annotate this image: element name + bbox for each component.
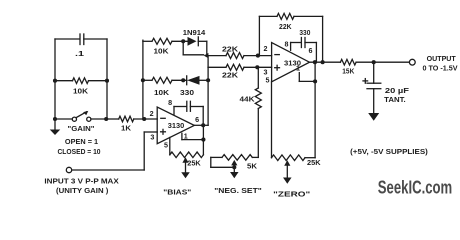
resistor R9 44K (255, 88, 261, 109)
node junction pin1-output (313, 79, 317, 83)
wire loop top segment right (84, 38, 107, 40)
svg-text:22K: 22K (279, 24, 292, 31)
node junction pin2-feedback (256, 54, 260, 58)
wire to 1K (107, 118, 119, 120)
svg-text:TANT.: TANT. (384, 95, 406, 104)
label NEG. SET (214, 188, 262, 195)
label UNITY GAIN (56, 186, 109, 195)
svg-text:8: 8 (168, 100, 172, 107)
node junction output-feedback (321, 60, 325, 64)
op-amp U1 3130 (157, 107, 194, 144)
wire top branch left (143, 40, 152, 42)
svg-text:10K: 10K (154, 49, 169, 56)
wire feedback top right (294, 16, 323, 62)
U1 pin 1 stub (182, 133, 188, 140)
diode D2 (187, 76, 208, 85)
svg-text:22K: 22K (222, 47, 238, 54)
svg-text:3: 3 (150, 135, 154, 142)
wire feedback rail (142, 40, 144, 119)
wire 44K down (252, 109, 258, 158)
svg-text:1N914: 1N914 (183, 30, 206, 37)
svg-text:0 TO -1.5V: 0 TO -1.5V (423, 64, 458, 73)
wire D1 node drop (183, 41, 203, 55)
value label TANT (384, 95, 406, 104)
wire 15K to terminal (356, 61, 409, 63)
node A diode anode (181, 39, 185, 43)
op-amp U2 3130 (272, 43, 310, 82)
svg-text:"BIAS": "BIAS" (163, 190, 191, 197)
U2 pin 1 stub (296, 66, 300, 82)
svg-text:5: 5 (266, 78, 270, 85)
U2 pin 2 label (264, 46, 268, 53)
node junction right-mid (105, 79, 109, 83)
U1 pin 2 label (150, 111, 154, 118)
value label 1K (121, 126, 131, 133)
node junction output-apex (313, 60, 317, 64)
wire to 22K upper (207, 55, 226, 57)
ground below C4 (368, 113, 379, 121)
value label 22K feedback (279, 24, 292, 31)
label BIAS (163, 190, 191, 197)
input terminal (66, 167, 71, 172)
wire U2 pin1 bracket (299, 80, 315, 82)
svg-text:5: 5 (164, 143, 168, 150)
wire loop left rail (54, 39, 56, 119)
wire 22K upper to pin2 (244, 55, 272, 57)
wire pin1 bracket (182, 125, 204, 155)
U2 pin 3 label (264, 70, 268, 77)
wire feedback top left (259, 15, 277, 17)
node junction 1K-feedback (142, 117, 146, 121)
U2 plus sign (275, 65, 280, 70)
value label 330 U2 (299, 30, 310, 37)
node junction pin3-44K (255, 65, 259, 69)
value label 25K ZERO (307, 160, 321, 167)
node B diode cathode (181, 78, 185, 82)
label ZERO (273, 191, 310, 198)
svg-text:"GAIN": "GAIN" (68, 126, 95, 133)
resistor R3 10K (152, 38, 172, 44)
label GAIN (68, 126, 95, 133)
U2 minus sign (275, 54, 279, 56)
U1 plus sign (161, 129, 166, 134)
wire U2 output vertical (314, 62, 316, 158)
U1 pin 8 stub (168, 100, 174, 114)
value label 10K top (154, 49, 169, 56)
svg-text:SeekIC.com: SeekIC.com (378, 176, 452, 197)
label OUTPUT (427, 54, 457, 63)
svg-text:(UNITY GAIN ): (UNITY GAIN ) (56, 186, 109, 195)
value label 330 (180, 90, 194, 97)
svg-text:6: 6 (309, 48, 313, 55)
node junction NEGSET wiper (232, 165, 236, 169)
svg-text:CLOSED = 10: CLOSED = 10 (57, 149, 100, 156)
wire loop top segment left (55, 38, 79, 40)
label OPEN = 1 (65, 139, 98, 146)
SeekIC.com logo (378, 176, 452, 197)
wire bottom branch left (143, 79, 152, 81)
value label 22K lower (222, 73, 238, 80)
wire bottom branch mid (172, 79, 187, 81)
potentiometer R5 25K BIAS (170, 152, 204, 172)
svg-text:15K: 15K (342, 68, 354, 75)
svg-text:10K: 10K (154, 90, 169, 97)
wire mid (55, 80, 107, 82)
value label 25K (187, 160, 201, 167)
svg-text:25K: 25K (187, 160, 201, 167)
svg-text:OPEN = 1: OPEN = 1 (65, 139, 98, 146)
svg-text:"NEG. SET": "NEG. SET" (214, 188, 262, 195)
wire to 22K lower (208, 66, 226, 68)
wire bus vertical lower (207, 56, 209, 126)
node junction bus-bottom (206, 78, 210, 82)
svg-text:44K: 44K (240, 97, 255, 104)
node junction left-mid (53, 79, 57, 83)
capacitor C2 330 (174, 101, 203, 125)
wire input riser (144, 132, 157, 170)
svg-text:6: 6 (195, 117, 199, 124)
svg-text:2: 2 (264, 46, 268, 53)
wire top branch mid (172, 40, 187, 42)
node junction switch-left (53, 117, 57, 121)
ground below switch (50, 119, 61, 135)
U2 pin 5 stub (266, 78, 272, 158)
U1 pin 3 label (150, 135, 154, 142)
potentiometer R11 25K ZERO (272, 155, 316, 178)
value label 5K (247, 164, 257, 171)
wire feedback up (258, 16, 260, 55)
node junction rail-bottom-branch (141, 78, 145, 82)
svg-text:2: 2 (150, 111, 154, 118)
output terminal (409, 59, 415, 65)
svg-text:330: 330 (180, 90, 194, 97)
svg-text:3130: 3130 (168, 121, 185, 130)
svg-text:25K: 25K (307, 160, 321, 167)
U1 pin 6 label (195, 117, 199, 124)
value label 15K (342, 68, 354, 75)
svg-text:1K: 1K (121, 126, 131, 133)
value label 20 uF (385, 86, 410, 95)
potentiometer R10 5K NEG SET (211, 155, 253, 172)
switch S1 GAIN (72, 111, 91, 121)
value label 44K (240, 97, 255, 104)
svg-text:22K: 22K (222, 73, 238, 80)
wire 1K to pin2 (134, 118, 157, 120)
ground below ZERO (283, 178, 292, 184)
resistor R8 22K feedback (277, 13, 294, 19)
resistor R1 10K (73, 78, 89, 84)
label INPUT 3 V P-P MAX (44, 177, 118, 186)
diode D1 1N914 (188, 37, 207, 46)
svg-text:(+5V, -5V SUPPLIES): (+5V, -5V SUPPLIES) (350, 147, 428, 156)
wire bus vertical upper (206, 41, 208, 55)
wire 22K lower to pin3 (244, 66, 272, 68)
capacitor C1 .1 (80, 34, 84, 45)
label 0 TO -1.5V (423, 64, 458, 73)
wire U1 output (194, 124, 208, 126)
svg-text:"ZERO": "ZERO" (273, 191, 310, 198)
value label 10K (73, 89, 88, 96)
wire switch left (55, 118, 72, 120)
node junction switch-right (104, 117, 108, 121)
svg-text:1: 1 (296, 66, 300, 73)
U2 pin 6 label (309, 48, 313, 55)
U2 pin 8 stub (285, 42, 291, 51)
svg-text:10K: 10K (73, 89, 88, 96)
label supplies (350, 147, 428, 156)
wire switch right (91, 118, 107, 120)
node junction output-cap20 (372, 60, 376, 64)
wire 44K top (257, 67, 259, 88)
junction arrow into bus (204, 53, 209, 58)
resistor R6 22K upper (226, 53, 244, 59)
resistor R12 15K (340, 59, 356, 65)
svg-text:OUTPUT: OUTPUT (427, 54, 457, 63)
value label 10K bottom (154, 90, 169, 97)
capacitor C3 330 (291, 38, 317, 63)
svg-text:330: 330 (299, 30, 310, 37)
svg-text:5K: 5K (247, 164, 257, 171)
value label 1N914 (183, 30, 206, 37)
value label .1 (75, 49, 84, 58)
value label 22K upper (222, 47, 238, 54)
resistor R4 10K (152, 77, 172, 83)
resistor R2 1K (119, 116, 134, 122)
capacitor C4 20uF (363, 62, 381, 113)
resistor R7 22K lower (226, 64, 244, 70)
wire input horizontal (72, 169, 145, 171)
node junction output-cap (201, 123, 205, 127)
svg-text:.1: .1 (75, 49, 84, 58)
wire loop right rail (106, 39, 108, 119)
svg-text:3: 3 (264, 70, 268, 77)
svg-text:20 µF: 20 µF (385, 86, 410, 95)
ground below NEG SET (230, 172, 239, 178)
U1 pin 5 stub (164, 138, 170, 155)
label CLOSED = 10 (57, 149, 100, 156)
wire U2 output (310, 61, 341, 63)
ground below BIAS pot (181, 172, 190, 178)
node junction pin1-bracket (201, 138, 205, 142)
svg-text:8: 8 (285, 42, 289, 49)
U1 minus sign (161, 117, 165, 119)
svg-text:INPUT 3 V P-P MAX: INPUT 3 V P-P MAX (44, 177, 118, 186)
